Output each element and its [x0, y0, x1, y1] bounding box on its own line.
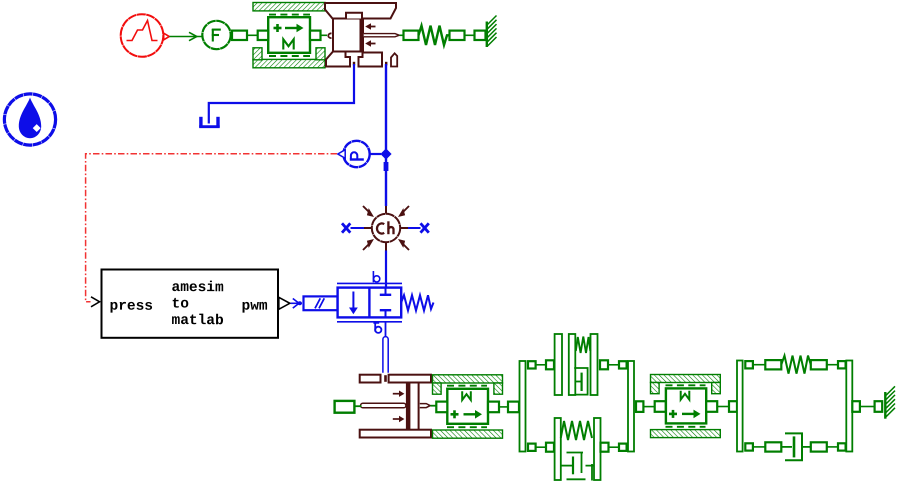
chamber circle — [372, 214, 400, 242]
inward arrow SE — [404, 245, 410, 251]
svg-text:to: to — [171, 297, 189, 313]
top branch: spring — [745, 356, 845, 374]
top-left plate — [360, 375, 381, 383]
spring — [561, 421, 592, 440]
port tick top — [385, 288, 387, 295]
right stub — [400, 227, 408, 229]
svg-text:matlab: matlab — [171, 313, 224, 329]
M2 top rail (hatched, ends down) — [433, 375, 503, 394]
mass M1 bottom contact dashes — [269, 55, 310, 57]
port tick bottom — [385, 310, 387, 317]
wire: servovalve port to chamber (blue vertical) — [385, 64, 387, 206]
end-stop 2 (bottom): plates with spring and damper — [555, 418, 601, 481]
left bar — [520, 361, 526, 452]
wire chamber to pwm valve — [385, 251, 387, 289]
bottom plate — [360, 430, 431, 438]
force input F — [202, 21, 230, 49]
damper — [574, 368, 587, 395]
output rod — [364, 34, 400, 37]
damper — [567, 453, 584, 474]
inward arrow NW — [363, 206, 369, 212]
svg-text:pwm: pwm — [241, 299, 267, 315]
wire: valve drain to tank (blue) — [209, 64, 354, 124]
M3 top contact dashes — [666, 384, 706, 386]
right bar — [628, 361, 634, 452]
wire M2 to contact bracket — [499, 406, 508, 408]
wall pin — [875, 401, 883, 412]
wire mass to servovalve — [321, 34, 328, 36]
port label b — [373, 271, 379, 282]
M3 left pin — [655, 401, 666, 412]
wall pin — [475, 31, 486, 40]
wall (bottom right, hatched) — [885, 386, 895, 418]
wire M3 to spring-damper bracket — [717, 406, 729, 408]
M3 right pin — [706, 401, 717, 412]
svg-text:press: press — [109, 299, 153, 315]
inward arrow SW — [363, 245, 369, 251]
press block (interface icon) — [91, 270, 290, 338]
rod (right, pointed) — [420, 404, 430, 408]
left stub — [364, 227, 372, 229]
jack left pin (green) — [335, 401, 355, 413]
plug X right of chamber — [408, 223, 429, 232]
pressure sensor P — [338, 141, 370, 167]
spring (green) — [419, 26, 450, 45]
bottom branch wire and pins — [528, 443, 554, 452]
pin of F — [232, 31, 247, 40]
wire press block to valve (blue signal) — [291, 299, 303, 309]
left foot — [326, 52, 350, 67]
spring pin left — [404, 31, 419, 40]
M3 body — [666, 388, 706, 423]
M2 bottom contact dashes — [447, 426, 487, 428]
tank — [199, 117, 220, 128]
servovalve spool body (mechanical jet-pipe element) — [325, 3, 399, 67]
mass M1 top rail (hatched) — [253, 3, 325, 11]
end-stop 1 (top): plates with spring and damper — [555, 334, 598, 395]
M3 bottom contact dashes — [666, 426, 706, 428]
solenoid — [304, 296, 338, 310]
wire: pressure sensor to junction — [369, 153, 381, 155]
wire spring to wall pin — [465, 34, 475, 36]
pwm solenoid valve 2/2 — [304, 271, 434, 333]
M2 top contact dashes — [447, 385, 487, 387]
left bar — [737, 361, 743, 452]
contact bracket left port — [508, 402, 519, 413]
armature tab — [346, 13, 362, 19]
flapper thick bar — [360, 19, 364, 52]
end-stop 1 right pins — [600, 360, 627, 369]
closed position arrow (down) — [352, 292, 354, 310]
left port hook — [328, 33, 331, 38]
fluid properties icon — [4, 94, 55, 145]
mass M1 left pin — [258, 31, 269, 40]
top-right plate — [389, 375, 431, 383]
hydraulic chamber Ch — [363, 206, 409, 251]
inward arrow NE — [404, 206, 410, 212]
mass M1 right pin — [310, 31, 321, 40]
middle foot — [359, 53, 383, 67]
wire to wall pin — [860, 406, 875, 408]
M2 right pin — [488, 402, 499, 413]
output triangle — [279, 297, 290, 309]
junction node — [380, 148, 391, 159]
rod (left) — [361, 403, 406, 408]
bottom stub — [385, 242, 387, 250]
drain port ticks (servovalve) — [353, 62, 355, 66]
wire: source to force transducer — [170, 32, 203, 40]
top plate — [325, 3, 396, 19]
plug X left of chamber — [342, 223, 364, 232]
signal source (piecewise linear input) — [121, 14, 170, 57]
top branch wire and pins — [528, 360, 554, 369]
end-stop 2 right pins — [601, 443, 627, 452]
wire bracket to mass M3 — [643, 406, 654, 408]
wire jack rod to mass pin — [430, 405, 436, 407]
spool chamber — [333, 19, 363, 52]
M3 bottom rail (hatched bar) — [651, 430, 721, 438]
wall (top right, hatched) — [487, 16, 497, 48]
red control line (dash-dot) sensor to press block — [86, 154, 337, 302]
bracket right port — [852, 401, 860, 412]
port label a (rotated) — [373, 323, 381, 333]
arrow lower (pointing left) — [368, 43, 376, 45]
wire servovalve rod to spring pin — [400, 34, 404, 36]
spring-damper bracket left port — [729, 401, 737, 412]
inlet notch — [384, 375, 387, 382]
M3 top rail (hatched, ends down) — [651, 375, 721, 394]
return spring — [401, 295, 433, 310]
right flag — [391, 53, 397, 66]
valve body — [338, 288, 402, 318]
spring — [576, 337, 591, 354]
spring pin right — [450, 31, 465, 40]
top rail — [337, 282, 402, 284]
M2 bottom rail (hatched bar) — [433, 430, 503, 438]
M2 body — [447, 389, 488, 424]
arrow upper (pointing right) — [393, 393, 400, 395]
pipe: valve to jack (capsule) — [383, 322, 388, 373]
wire F to mass — [248, 34, 258, 36]
top stub — [385, 206, 387, 214]
mass M1 bottom rail (hatched U) — [253, 48, 325, 68]
piston plunger — [409, 383, 418, 431]
mass M1 body — [268, 17, 310, 53]
hydraulic jack (plunger) — [360, 375, 431, 438]
M2 left pin — [436, 402, 447, 413]
bottom rail — [337, 321, 402, 323]
arrow lower (pointing right) — [393, 418, 400, 420]
mass M1 top contact dashes — [269, 14, 310, 16]
arrow upper (pointing left) — [368, 26, 376, 28]
svg-text:amesim: amesim — [171, 280, 224, 296]
bottom branch: damper — [745, 433, 845, 460]
contact bracket right port — [636, 401, 643, 412]
junction thick stub — [384, 162, 389, 171]
input chevron — [91, 297, 100, 307]
right bar — [846, 361, 852, 452]
